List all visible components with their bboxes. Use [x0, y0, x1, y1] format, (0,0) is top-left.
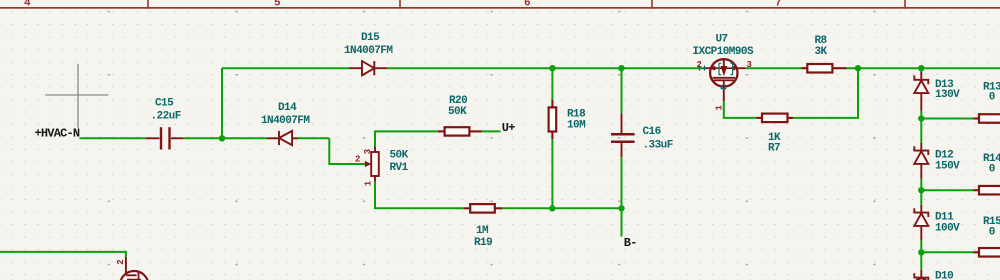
svg-text:.22uF: .22uF — [151, 110, 181, 122]
cursor crosshair — [45, 64, 108, 128]
junction D13 top — [918, 65, 924, 71]
svg-text:D10: D10 — [935, 270, 953, 280]
potentiometer RV1 — [371, 147, 379, 182]
border tick x=905 — [904, 0, 906, 9]
svg-text:50K: 50K — [390, 150, 409, 162]
wire top rail to D15 — [222, 67, 349, 69]
svg-text:100V: 100V — [935, 222, 960, 234]
svg-text:IXCP10M90S: IXCP10M90S — [693, 46, 754, 58]
wire R18 bottom — [551, 139, 553, 208]
svg-text:B-: B- — [624, 236, 637, 250]
U7 source blob left — [712, 66, 716, 70]
wire bottom-left to Q gate — [0, 252, 126, 257]
svg-text:2: 2 — [116, 259, 126, 264]
U7 teal pin1 name — [721, 85, 726, 88]
junction R18 top — [549, 65, 555, 71]
zener diode D12 — [914, 143, 928, 179]
svg-text:3: 3 — [747, 60, 752, 70]
svg-text:1: 1 — [715, 105, 725, 111]
border tick x=148 — [147, 0, 149, 9]
svg-text:R19: R19 — [474, 237, 492, 249]
wire D15 to U7 — [387, 67, 703, 69]
wire +HVAC-N to C15 — [79, 137, 146, 139]
svg-text:4: 4 — [24, 0, 31, 10]
wire junction to R13 — [921, 118, 973, 120]
wire D14 to jog corner — [298, 137, 330, 139]
wire C16 top — [621, 68, 623, 113]
svg-text:.33uF: .33uF — [643, 139, 673, 151]
resistor R7 — [756, 114, 793, 123]
capacitor C16 — [611, 114, 635, 158]
svg-text:U7: U7 — [716, 34, 728, 46]
U7 arrow — [721, 66, 728, 76]
wire R7 to riser — [793, 68, 858, 118]
resistor R14 — [973, 186, 1000, 195]
junction D13/R13 — [918, 115, 924, 121]
wire R19 to C16 column — [502, 207, 621, 209]
wire R8 to right edge — [847, 67, 1000, 69]
wire R20 to U+ — [482, 130, 501, 132]
junction C16 top — [618, 65, 624, 71]
svg-text:0: 0 — [989, 226, 995, 238]
svg-text:6: 6 — [524, 0, 531, 10]
sheet border line — [0, 7, 1000, 9]
svg-text:3: 3 — [363, 149, 373, 154]
wire junction to R14 — [921, 189, 973, 191]
border tick x=652 — [651, 0, 653, 9]
resistor R18 (vertical) — [549, 100, 557, 139]
U7 source blob right — [732, 66, 736, 70]
wire D12 anode to junction — [920, 179, 922, 193]
zener diode D10 — [914, 270, 928, 280]
junction R8/R7 riser — [855, 65, 861, 71]
U7 teal pin2 name — [700, 66, 705, 71]
U7 teal bracket left — [719, 63, 721, 74]
resistor R8 — [802, 64, 847, 73]
junction C16 bottom — [618, 205, 624, 211]
diode D15 — [349, 61, 387, 75]
svg-text:1N4007FM: 1N4007FM — [261, 115, 310, 127]
svg-text:10M: 10M — [567, 120, 586, 132]
wire C15 to D14 — [183, 137, 267, 139]
wire vertical to top rail — [221, 68, 223, 138]
resistor R13 — [973, 114, 1000, 123]
svg-text:R20: R20 — [449, 95, 467, 107]
wire jog down — [329, 138, 365, 164]
svg-text:C16: C16 — [643, 126, 661, 138]
zener diode D11 — [914, 205, 928, 241]
svg-text:2: 2 — [355, 154, 360, 164]
svg-text:1: 1 — [364, 180, 374, 186]
svg-text:50K: 50K — [448, 106, 467, 118]
wire RV1 top to R20 — [375, 131, 438, 147]
diode D14 — [267, 131, 298, 145]
potentiometer RV1 wiper arrow — [365, 161, 371, 167]
svg-text:0: 0 — [989, 163, 995, 175]
svg-text:D15: D15 — [361, 32, 380, 44]
transistor Q bottom-left — [120, 257, 148, 280]
svg-text:2: 2 — [697, 60, 702, 70]
resistor R20 — [438, 127, 482, 135]
wire junction to R15 — [921, 251, 973, 253]
wire D13-D12 segment — [920, 119, 922, 143]
border tick x=400 — [399, 0, 401, 9]
svg-text:150V: 150V — [935, 160, 960, 172]
svg-text:R18: R18 — [567, 108, 586, 120]
wire RV1 bottom to R19 — [375, 182, 464, 209]
svg-text:7: 7 — [775, 0, 782, 10]
junction D11/R15 — [918, 249, 924, 255]
svg-text:RV1: RV1 — [390, 162, 409, 174]
svg-text:3K: 3K — [815, 46, 828, 58]
svg-text:1M: 1M — [476, 225, 489, 237]
svg-text:1N4007FM: 1N4007FM — [344, 45, 393, 57]
junction R18 bottom — [549, 205, 555, 211]
wire U7 to R8 — [745, 67, 801, 69]
transistor U7 (IXCP10M90S) — [703, 59, 745, 101]
wire D11-D10 segment — [920, 252, 922, 270]
wire U7 pin1 down — [724, 101, 757, 118]
svg-text:D14: D14 — [278, 102, 297, 114]
wire D12-D11 segment — [920, 190, 922, 205]
resistor R15 — [973, 248, 1000, 256]
wire right column D13 anode to junction — [920, 111, 922, 122]
svg-text:U+: U+ — [502, 121, 515, 135]
wire D11 anode to junction — [920, 241, 922, 255]
U7 teal bracket right — [730, 63, 732, 74]
junction C15/D14 node — [219, 135, 225, 141]
capacitor C15 — [146, 127, 183, 149]
junction D12/R14 — [918, 187, 924, 193]
svg-text:0: 0 — [989, 92, 995, 104]
svg-text:R7: R7 — [768, 142, 780, 154]
svg-text:+HVAC-N: +HVAC-N — [35, 126, 80, 140]
svg-text:130V: 130V — [935, 89, 960, 101]
zener diode D13 — [914, 71, 928, 110]
resistor R19 — [464, 204, 503, 213]
svg-text:R8: R8 — [815, 35, 828, 47]
svg-text:C15: C15 — [155, 97, 174, 109]
wire C16 bottom to B- — [621, 157, 623, 236]
svg-text:5: 5 — [274, 0, 281, 10]
wire R18 top — [551, 68, 553, 100]
